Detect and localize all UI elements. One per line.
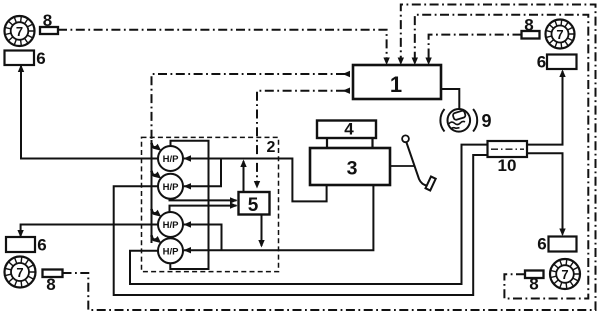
pump H/P 3 <box>158 212 183 237</box>
arrow into valve5 left lower <box>230 202 238 208</box>
wire bus to pump3 right port <box>184 225 222 251</box>
wire brake line: pump3 to wheel cylinder BL <box>21 225 158 237</box>
arrow into wheel cylinder TL <box>18 65 24 73</box>
wire control unit to valve block 5 (left, down at x=257) <box>257 91 345 184</box>
reservoir pedestal <box>327 132 373 149</box>
svg-text:7: 7 <box>561 267 568 282</box>
wheel cylinder 6 BR <box>537 235 576 254</box>
valve block 5 <box>239 192 270 216</box>
svg-text:H/P: H/P <box>163 220 180 231</box>
svg-text:9: 9 <box>481 111 491 131</box>
wheel sensor 8 TR <box>522 16 540 39</box>
arrow out of control unit left lower <box>343 88 351 94</box>
wire sensor TR to control unit <box>429 35 522 62</box>
arrow into control unit top 1 <box>383 58 389 66</box>
wire brake line: pump4 left loop to valve 10 upper port <box>130 145 488 284</box>
arrow into pump1 right <box>184 155 192 161</box>
svg-text:8: 8 <box>529 275 538 294</box>
wire master cylinder circuit 1: bus y=158.5 to MC bottom <box>184 159 327 202</box>
tone wheel 7 BL <box>5 257 36 288</box>
svg-text:5: 5 <box>248 195 259 216</box>
svg-text:7: 7 <box>556 27 563 42</box>
fluid reservoir 4 <box>317 120 376 139</box>
arrow into control unit top 3 <box>412 58 418 66</box>
arrow into pump2 right <box>184 183 192 189</box>
svg-text:7: 7 <box>16 24 23 39</box>
wheel cylinder 6 TL <box>5 49 46 68</box>
wire pump1 top loop <box>170 141 208 269</box>
svg-text:H/P: H/P <box>163 154 180 165</box>
wheel sensor 8 BR <box>525 271 544 294</box>
pedal pad <box>425 177 435 191</box>
pump H/P 4 <box>158 238 183 263</box>
svg-text:2: 2 <box>267 139 276 156</box>
wire valve block 5 down arrow line <box>261 215 263 247</box>
svg-text:6: 6 <box>37 236 46 255</box>
arrow into wheel cylinder TR <box>559 70 565 78</box>
wire sensor BR bottom route to control unit <box>415 15 589 299</box>
svg-text:3: 3 <box>347 158 358 180</box>
wheel sensor 8 BL <box>43 270 63 295</box>
arrowheads <box>17 58 565 254</box>
svg-text:H/P: H/P <box>163 182 180 193</box>
pedal lever <box>406 142 427 186</box>
tone wheel 7 TL <box>5 16 35 46</box>
wire master cylinder circuit 2: MC bottom to bus y=250 <box>184 185 373 250</box>
hydraulic unit dashed box 2 <box>142 137 279 271</box>
wire pump3 to valve block 5 <box>170 206 237 213</box>
pump H/P 1 <box>158 146 183 171</box>
arrow into wheel cylinder BR <box>559 229 565 237</box>
master cylinder 3 <box>310 148 390 185</box>
svg-text:8: 8 <box>524 16 533 35</box>
arrow down from ECU line to valve5 <box>254 181 260 189</box>
wire pump control vertical (solid section inside HU) <box>151 140 153 243</box>
arrow into pump3 right <box>184 221 192 227</box>
wire valve block 5 up arrow line <box>243 161 245 192</box>
arrow up from valve5 to bus <box>240 160 246 168</box>
wheel cylinder 6 BL <box>6 236 47 255</box>
pedal pivot <box>402 135 409 142</box>
svg-text:7: 7 <box>16 265 23 280</box>
arrow into control unit top 2 <box>398 58 404 66</box>
wheel cylinder 6 TR <box>537 53 577 72</box>
arrow down from valve5 to bus <box>258 240 264 248</box>
warning lamp 9 <box>440 109 477 132</box>
wire control unit to warning lamp <box>441 89 459 109</box>
wire bus to pump2 right port <box>184 159 221 187</box>
svg-text:8: 8 <box>46 275 55 294</box>
wire brake line: pump1 to wheel cylinder TL <box>21 66 158 159</box>
wire valve 10 lower to wheel cylinder BR <box>527 153 563 234</box>
arrow out of control unit left upper <box>343 71 351 77</box>
svg-text:4: 4 <box>344 120 354 139</box>
tone wheel 7 BR <box>550 259 580 289</box>
pump control curved branch arrows <box>152 143 157 240</box>
pump H/P 2 <box>158 174 183 199</box>
svg-text:10: 10 <box>498 156 517 175</box>
svg-text:6: 6 <box>537 53 546 72</box>
svg-text:8: 8 <box>43 11 52 30</box>
wire control unit to pump control (left, down at x=151.5) <box>152 74 346 140</box>
wire valve 10 upper to wheel cylinder TR <box>527 71 563 145</box>
wire sensor TL to control unit <box>58 30 387 62</box>
wire brake line: pump2 left loop to valve 10 lower port <box>114 155 488 295</box>
svg-text:6: 6 <box>36 49 45 68</box>
arrow into valve5 left upper <box>230 197 238 203</box>
svg-text:1: 1 <box>390 72 402 97</box>
tone wheel 7 TR <box>546 20 575 49</box>
arrow into wheel cylinder BL <box>17 230 23 238</box>
svg-text:6: 6 <box>537 235 546 254</box>
arrow into control unit top 4 <box>425 58 431 66</box>
wire pump2 to valve block 5 <box>170 199 237 201</box>
wheel sensor 8 TL <box>40 11 58 34</box>
svg-text:H/P: H/P <box>163 246 180 257</box>
pedal link rod <box>390 165 414 167</box>
arrow into pump4 right <box>184 247 192 253</box>
control unit 1 <box>353 65 441 99</box>
proportioning valve 10 <box>488 141 528 175</box>
